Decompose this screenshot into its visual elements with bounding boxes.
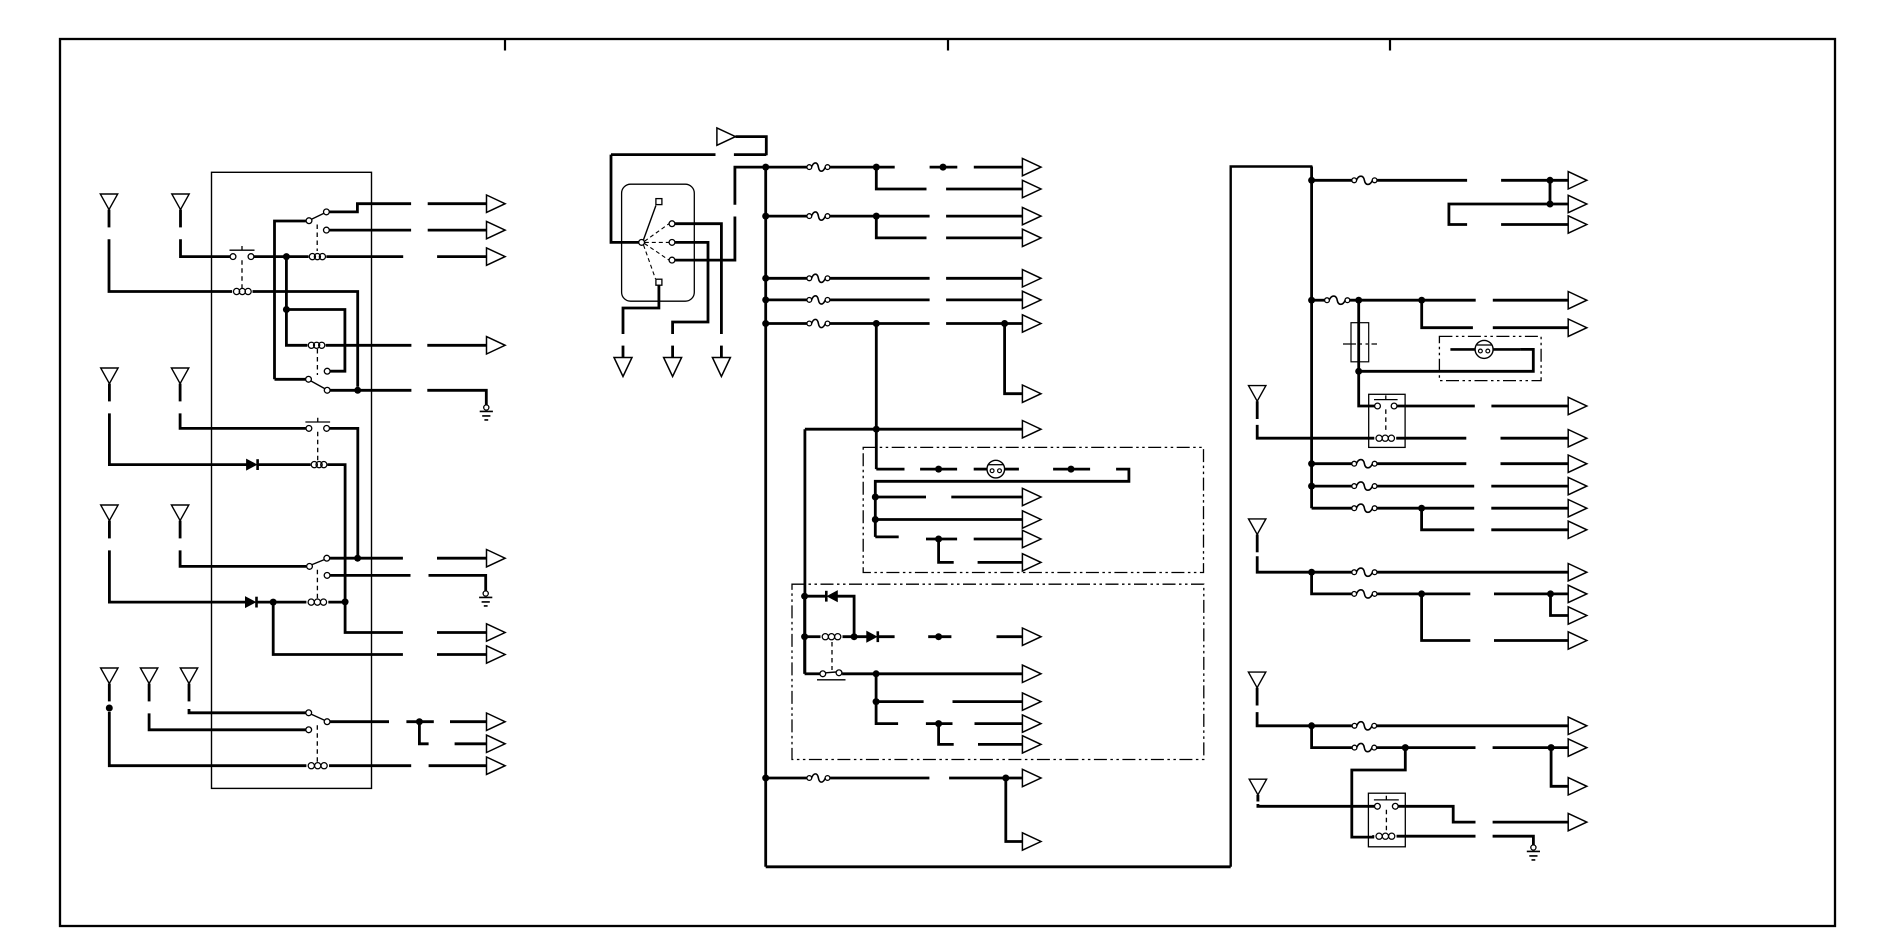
- output arrow mid 4: [1022, 229, 1041, 246]
- wire S1 to node J1: [254, 255, 309, 258]
- wire R2 coil jog: [1352, 748, 1406, 838]
- bus junction row3: [762, 275, 769, 282]
- antenna A5: [101, 505, 118, 538]
- selector S5 pivot: [307, 564, 313, 570]
- wire F7 out: [1377, 179, 1467, 182]
- switch S7 contact left: [820, 671, 826, 677]
- junction rowA right: [1547, 177, 1554, 184]
- junction lamp row a: [935, 466, 942, 473]
- junction row747 right: [1548, 744, 1555, 751]
- wire input arrow to bus top: [736, 137, 767, 156]
- ignition switch connector: [622, 184, 695, 301]
- junction row508 T: [1418, 505, 1425, 512]
- output arrow right 8: [1568, 455, 1587, 472]
- antenna A11: [1249, 519, 1266, 552]
- wire S5 down-throw to ground G2: [330, 574, 410, 577]
- bus junction rowA: [1308, 177, 1315, 184]
- wire R2 contact out: [1398, 806, 1475, 822]
- wire row5 branch down: [875, 324, 878, 470]
- wire lamp row seg4: [1005, 468, 1019, 471]
- output arrow left 9: [487, 735, 506, 752]
- fuse F9: [1352, 460, 1377, 468]
- mech link S2-L2: [316, 225, 318, 252]
- output arrow mid 18: [1022, 736, 1041, 753]
- antenna A9: [180, 668, 197, 701]
- wire pin IG2 up to bus 2: [735, 167, 766, 205]
- wire row486 to fuse F10: [1312, 485, 1352, 488]
- junction box row c: [935, 536, 942, 543]
- output arrow right 6: [1568, 397, 1587, 414]
- wire down arrow 1 stem: [622, 346, 625, 358]
- junction row593 T: [1418, 590, 1425, 597]
- wire ignition feed 2: [734, 153, 766, 156]
- audio unit box: [212, 172, 372, 788]
- wire D2 to coil L5: [257, 601, 307, 604]
- fusible link box: [1351, 323, 1369, 362]
- wire row1b arrow lead: [946, 188, 1022, 191]
- selector S5 arm: [312, 560, 324, 565]
- wire S2 down-throw segment: [330, 229, 412, 232]
- selector S2 pivot: [306, 218, 312, 224]
- fusible link dash-dot: [1343, 343, 1377, 345]
- diode D4: [867, 631, 878, 642]
- relay R1 contacts: [1374, 395, 1398, 409]
- right bus vertical: [1310, 167, 1313, 509]
- wire F2 out: [830, 215, 930, 218]
- indicator lamp B1: [987, 460, 1005, 478]
- fuse F6: [807, 774, 830, 782]
- wire rowB to fuse F8: [1312, 299, 1325, 302]
- wire A1 stem to coil L1: [109, 239, 232, 291]
- ignition arm to top pin: [644, 206, 656, 240]
- instrument cluster box (upper): [863, 447, 1203, 572]
- main bus vertical: [764, 167, 767, 867]
- wire lamp B2 left stub: [1450, 348, 1475, 351]
- wire row 744 lead: [978, 743, 1022, 746]
- diode D3: [826, 591, 837, 602]
- output arrow left 5: [487, 550, 506, 567]
- diode D2: [246, 597, 257, 608]
- wire arrow 1 lead: [428, 202, 487, 205]
- wire bus-down feed S2: [275, 221, 306, 379]
- output arrow left 6: [487, 624, 506, 641]
- junction J3: [354, 387, 361, 394]
- wire lamp row seg1: [876, 468, 904, 471]
- selector S2 throw up: [324, 209, 330, 215]
- switch S6 common: [324, 719, 330, 725]
- wire row5 branch right down: [1005, 324, 1023, 394]
- wire row3 arrow lead: [946, 277, 1022, 280]
- wire ignition feed drop: [611, 155, 639, 243]
- wire row1 arrow lead: [974, 166, 1023, 169]
- wire S5 up-throw to arrow: [330, 557, 403, 560]
- fuse F3: [807, 274, 830, 282]
- wire row5 to fuse F5: [766, 322, 807, 325]
- output arrow mid 17: [1022, 715, 1041, 732]
- junction row 723: [935, 720, 942, 727]
- output arrow left 3: [487, 248, 506, 265]
- output arrow right 14: [1568, 607, 1587, 624]
- switch S7 base line: [817, 679, 846, 681]
- wire row1 branch down: [876, 167, 926, 189]
- junction rowA2: [1547, 201, 1554, 208]
- selector S3 throw up: [324, 368, 330, 374]
- switch S7 arm: [825, 671, 836, 674]
- selector S2 arm: [312, 213, 325, 219]
- wire row615 branch: [1551, 594, 1569, 616]
- wire row 636 seg: [928, 635, 951, 638]
- output arrow mid 1: [1022, 158, 1041, 175]
- wire F1 out: [830, 166, 895, 169]
- junction row6 right: [1002, 775, 1009, 782]
- wire row 701 lead: [953, 700, 1023, 703]
- mech link R1: [1385, 409, 1387, 433]
- wire S3 pivot feed: [275, 378, 306, 381]
- output arrow left 1: [487, 195, 506, 212]
- wire row 429: [805, 428, 1023, 431]
- wire row640 lead: [1494, 639, 1568, 642]
- junction row6 cross: [873, 426, 880, 433]
- middle box right edge: [1231, 167, 1313, 867]
- selector S5 throw down: [324, 573, 330, 579]
- wire row3 to fuse F3: [766, 277, 807, 280]
- bus junction row4: [762, 296, 769, 303]
- fuse F7: [1352, 176, 1377, 184]
- relay coil L2: [306, 254, 328, 260]
- junction S7 T: [873, 670, 880, 677]
- wire lamp B2 right lead: [1493, 348, 1520, 351]
- wire row508 corner: [1312, 507, 1352, 510]
- output arrow right 5: [1568, 319, 1587, 336]
- bus junction row 486: [1308, 483, 1315, 490]
- junction row5 right: [1001, 320, 1008, 327]
- wire arrow left5 lead: [437, 557, 487, 560]
- wire A6 stem to S5 pivot: [180, 550, 306, 566]
- relay coil L4: [309, 462, 330, 468]
- junction coil row: [801, 633, 808, 640]
- antenna A2: [172, 194, 189, 227]
- wire box row c stub: [875, 536, 898, 539]
- output arrow mid 14: [1022, 628, 1041, 645]
- fuse F2: [807, 212, 830, 220]
- ignition pin IG1: [669, 240, 675, 246]
- wire F14 out to arrow: [1377, 724, 1568, 727]
- wire row529 lead: [1491, 528, 1568, 531]
- output arrow right 15: [1568, 632, 1587, 649]
- wire arrow 2 lead: [428, 229, 487, 232]
- diode D1: [247, 459, 258, 470]
- wire ground G2 lead: [429, 575, 486, 591]
- relay contact S4: [305, 418, 330, 432]
- relay coil L3: [305, 342, 328, 348]
- wire S7 out: [842, 672, 1022, 675]
- output arrow mid 13: [1022, 554, 1041, 571]
- ignition pin square bottom: [656, 279, 662, 285]
- output arrow right 1: [1568, 172, 1587, 189]
- junction J2: [283, 306, 290, 313]
- junction row5 T: [873, 320, 880, 327]
- wire row4 arrow lead: [946, 298, 1022, 301]
- down arrow 2: [664, 358, 682, 377]
- wire A8 stem to S6 lower: [149, 713, 306, 729]
- selector S2 throw down: [324, 227, 330, 233]
- output arrow mid 11: [1022, 511, 1041, 528]
- output arrow left 8: [487, 713, 506, 730]
- output arrow left 4: [487, 337, 506, 354]
- output arrow mid 6: [1022, 291, 1041, 308]
- output arrow mid 5: [1022, 270, 1041, 287]
- output arrow mid 12: [1022, 530, 1041, 547]
- relay R1 box: [1369, 394, 1405, 447]
- frame tick mark 2: [947, 40, 949, 51]
- relay R2 contacts: [1374, 796, 1399, 809]
- output arrow right 4: [1568, 292, 1587, 309]
- wire box row a lead: [951, 496, 1022, 499]
- output arrow left 10: [487, 757, 506, 774]
- ignition dashed fan: [644, 224, 670, 279]
- output arrow mid 8: [1022, 385, 1041, 402]
- wire row640 branch: [1422, 594, 1471, 641]
- wire S6 out segment: [330, 720, 389, 723]
- bus junction row1: [762, 164, 769, 171]
- fuse F14: [1352, 722, 1377, 730]
- ground G3: [1527, 836, 1540, 860]
- wire row486 lead: [1491, 485, 1568, 488]
- wire A9 stem to S6 upper: [189, 709, 306, 713]
- relay coil L5: [304, 599, 330, 605]
- wire rowA branch down: [1550, 180, 1568, 204]
- switch S6 arm: [311, 714, 324, 720]
- antenna A4: [171, 368, 188, 401]
- wire pin IG1 jog to down arrow 2: [673, 242, 708, 334]
- wire F9 out: [1377, 462, 1466, 465]
- wire L2 arrow lead: [437, 255, 486, 258]
- wire R2 coil out: [1397, 835, 1476, 838]
- antenna A8: [140, 668, 157, 701]
- wire row529 branch: [1422, 508, 1475, 530]
- mech link S4-L4: [317, 432, 319, 461]
- wire row6 lead: [949, 777, 1022, 780]
- wire J6 down to arrow left7: [273, 602, 403, 654]
- output arrow right 10: [1568, 500, 1587, 517]
- wire R1 contact out: [1397, 405, 1475, 408]
- wire A12 to row725: [1257, 712, 1352, 726]
- wire row463 to fuse F9: [1312, 462, 1352, 465]
- wire L6 out segment: [329, 764, 411, 767]
- wire row2b arrow lead: [946, 236, 1022, 239]
- wire box row c lead: [974, 538, 1023, 541]
- relay R2 coil: [1372, 833, 1398, 839]
- output arrow left 2: [487, 221, 506, 238]
- wire lamp row seg3: [974, 468, 987, 471]
- wire down arrow 3 stem: [720, 346, 723, 358]
- wire ground G1 lead: [427, 390, 486, 405]
- wire box row a seg: [875, 496, 926, 499]
- fuse F11: [1352, 504, 1377, 512]
- wire S3 down-throw to ground run: [330, 389, 411, 392]
- frame tick mark 3: [1389, 40, 1391, 51]
- selector S5 throw up: [324, 555, 330, 561]
- wire L3 arrow lead: [427, 344, 486, 347]
- wire A5 stem to diode D2: [109, 550, 245, 602]
- wire J1 down to coil L3: [286, 257, 307, 346]
- wire rowB drop: [1359, 300, 1378, 406]
- wire row463 lead: [1501, 462, 1569, 465]
- wire A13 to R2 contact: [1258, 804, 1374, 806]
- ignition pin BAT: [669, 221, 675, 227]
- output arrow mid 2: [1022, 180, 1041, 197]
- junction rowB a: [1355, 297, 1362, 304]
- wire F6 out: [830, 777, 930, 780]
- relay R2 box: [1368, 793, 1405, 847]
- junction row2 T: [873, 213, 880, 220]
- down arrow 3: [712, 358, 730, 377]
- output arrow mid 7: [1022, 315, 1041, 332]
- connector dot A7: [106, 705, 113, 712]
- bus junction row2: [762, 213, 769, 220]
- coil L7: [819, 634, 845, 640]
- wire row5 arrow lead: [946, 322, 1022, 325]
- relay coil L1: [230, 288, 255, 294]
- output arrow mid 9: [1022, 421, 1041, 438]
- fuse F4: [807, 296, 830, 304]
- wire row822 lead: [1493, 821, 1569, 824]
- wire A11 to row572: [1257, 556, 1351, 572]
- wire S2 up-throw to arrow 1: [330, 204, 412, 212]
- fuse F8: [1325, 296, 1350, 304]
- output arrow right 3: [1568, 216, 1587, 233]
- mech link S1-L1: [241, 260, 243, 288]
- gauge assembly box (lower): [792, 584, 1204, 759]
- junction rowB b: [1418, 297, 1425, 304]
- output arrow mid 3: [1022, 207, 1041, 224]
- selector S3 throw down: [324, 387, 330, 393]
- junction J4: [342, 598, 349, 605]
- junction bus 572: [1308, 569, 1315, 576]
- antenna A6: [171, 505, 188, 538]
- wire row6 to fuse F6: [766, 777, 807, 780]
- wire A10 to coil R1: [1257, 425, 1374, 438]
- output arrow mid 20: [1022, 833, 1041, 850]
- ignition switch pivot: [639, 240, 645, 246]
- wire lamp B2 loop: [1359, 349, 1534, 371]
- wire row2 to fuse F2: [766, 215, 807, 218]
- switch S6 contact up: [306, 710, 312, 716]
- wire arrow left7 lead: [437, 653, 487, 656]
- junction row747 T: [1402, 744, 1409, 751]
- output arrow right 9: [1568, 477, 1587, 494]
- wire F15 out: [1377, 746, 1476, 749]
- wire bus seg 725-747: [1312, 726, 1352, 748]
- wire F5 out: [830, 322, 930, 325]
- fuse F5: [807, 319, 830, 327]
- mech link S6-L6: [316, 725, 318, 762]
- fuse F10: [1352, 482, 1377, 490]
- wire row6 branch down: [1006, 778, 1023, 842]
- wire ground G3 lead: [1493, 836, 1534, 845]
- bus junction row 463: [1308, 460, 1315, 467]
- wire D1 to coil L4: [258, 463, 311, 466]
- junction lamp row b: [1068, 466, 1075, 473]
- selector S3 pivot: [306, 376, 312, 382]
- selector S3 arm: [311, 381, 325, 389]
- mech link L3-S3: [316, 349, 318, 375]
- mech link L7-S7: [831, 642, 833, 670]
- output arrow right 2: [1568, 195, 1587, 212]
- bus junction row6: [762, 775, 769, 782]
- wire S4 to down-run: [330, 428, 358, 558]
- output arrow mid 16: [1022, 693, 1041, 710]
- wire row4 to fuse F4: [766, 298, 807, 301]
- wire row327 lead: [1493, 326, 1568, 329]
- wire row2 arrow lead: [946, 215, 1022, 218]
- wire S7 feed: [805, 672, 820, 675]
- ignition pin square top: [656, 199, 662, 205]
- bus junction rowB: [1308, 297, 1315, 304]
- fuse F13: [1352, 590, 1377, 598]
- wire F12 out to arrow: [1377, 571, 1568, 574]
- relay coil L6: [304, 763, 331, 769]
- junction row1 mid: [940, 164, 947, 171]
- wire diode loop top: [805, 595, 827, 598]
- output arrow right 17: [1568, 739, 1587, 756]
- wire J7 branch down: [419, 722, 428, 744]
- junction J5: [354, 555, 361, 562]
- output arrow right 19: [1568, 813, 1587, 830]
- mech link S5-L5: [316, 570, 318, 599]
- wire lamp row seg2: [920, 468, 957, 471]
- wire F11 out: [1377, 507, 1474, 510]
- wire row508 lead: [1491, 507, 1568, 510]
- wire L1 to down-run: [253, 292, 358, 387]
- junction coil out: [851, 633, 858, 640]
- wire S6 out segment 2: [406, 720, 433, 723]
- junction row1 T: [873, 164, 880, 171]
- output arrow right 7: [1568, 430, 1587, 447]
- output arrow right 13: [1568, 585, 1587, 602]
- wire A2 stem to contact S1: [181, 239, 230, 256]
- wire arrow left6 lead: [437, 631, 487, 634]
- wire bottom square pin to down arrow 1: [623, 285, 659, 334]
- wire row 744 branch: [939, 724, 954, 745]
- wire L5 right lead to J4: [328, 601, 345, 604]
- wire rowA jog: [1449, 204, 1550, 225]
- wire row1 to fuse F1: [766, 166, 807, 169]
- wire arrow left8 lead: [450, 720, 487, 723]
- wire pin IG2 up to bus: [675, 217, 735, 261]
- output arrow right 18: [1568, 778, 1587, 795]
- indicator lamp B2: [1475, 340, 1493, 358]
- wire row 636 lead: [997, 635, 1023, 638]
- wire lamp row seg5: [1053, 468, 1090, 471]
- switch S7 contact right: [836, 670, 842, 676]
- wire A4 stem to contact S4: [180, 413, 306, 428]
- fuse F15: [1352, 743, 1377, 751]
- wire coil L7 feed: [805, 635, 821, 638]
- wire vert 804 down: [804, 429, 807, 674]
- switch S6 contact down: [306, 727, 312, 733]
- wire row 723 seg: [926, 722, 953, 725]
- wire F3 out: [830, 277, 930, 280]
- output arrow right 16: [1568, 717, 1587, 734]
- wire arrow left9 lead: [455, 742, 487, 745]
- wire L3 out segment: [326, 344, 412, 347]
- wire rowB lead: [1493, 299, 1568, 302]
- wire F4 out: [830, 298, 930, 301]
- antenna A13: [1249, 779, 1266, 801]
- mech link R2: [1385, 810, 1387, 831]
- fuse F12: [1352, 568, 1377, 576]
